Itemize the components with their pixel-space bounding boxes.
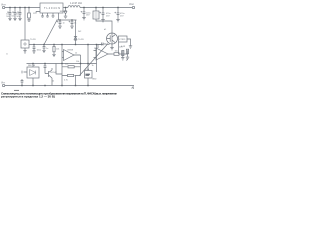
svg-text:1n: 1n: [74, 22, 76, 24]
op-amp A1: [64, 50, 75, 61]
svg-text:100n: 100n: [37, 49, 41, 51]
terminal Vin-: [2, 84, 4, 86]
wire A2 top feedback: [98, 44, 110, 48]
svg-text:TL494CN: TL494CN: [44, 7, 60, 10]
resistor R1: [53, 45, 55, 47]
wire diagonal D2: [80, 44, 109, 76]
ground: [32, 51, 35, 53]
svg-text:2.5A: 2.5A: [85, 68, 90, 71]
polarity mark: [17, 11, 19, 13]
polarity mark: [99, 12, 101, 14]
label mark: [132, 86, 135, 89]
capacitor C12: [44, 64, 47, 70]
capacitor C10: [43, 45, 46, 51]
svg-text:REL 1A: REL 1A: [28, 64, 35, 67]
svg-text:1n: 1n: [46, 48, 48, 50]
wire stub B1: [22, 71, 27, 74]
transistor Q1: [107, 33, 118, 44]
polarity mark: [12, 11, 14, 13]
labels: [1, 2, 134, 89]
ground: [82, 18, 85, 20]
node mid rail: [33, 44, 34, 45]
IC U1: [40, 3, 63, 13]
transistor Q2: [45, 70, 52, 79]
pin stub: [41, 13, 44, 17]
ground: [52, 54, 55, 56]
wire top rail left: [5, 7, 40, 9]
ground: [70, 26, 73, 28]
wire diagonal D1: [44, 20, 57, 45]
diode D2: [112, 53, 114, 55]
wire IC left stub: [36, 12, 40, 14]
svg-text:10k: 10k: [65, 64, 68, 66]
wire vertical: [61, 64, 63, 86]
comparator box B1: [27, 67, 39, 78]
pin stub: [46, 13, 49, 17]
resistor R3: [121, 50, 128, 57]
svg-text:10u: 10u: [6, 14, 9, 16]
capacitor C8: [117, 8, 120, 20]
pin stub: [58, 13, 60, 20]
svg-text:1k: 1k: [52, 81, 54, 83]
node top rail: [9, 7, 10, 8]
svg-text:10k: 10k: [76, 61, 79, 63]
capacitor C3: [19, 8, 22, 19]
capacitor C4: [59, 20, 62, 26]
box B2: [85, 71, 93, 79]
svg-text:10k: 10k: [115, 51, 118, 53]
wire top rail right: [63, 7, 132, 9]
svg-text:LM358: LM358: [67, 50, 74, 52]
ground: [42, 50, 45, 52]
svg-text:Vin+: Vin+: [1, 3, 6, 6]
inductor L1: [68, 6, 80, 8]
ground: [13, 18, 16, 20]
polarity mark: [7, 11, 9, 13]
ground: [116, 20, 119, 22]
feedback wires A1: [62, 55, 81, 67]
capacitor C6: [83, 8, 86, 18]
ground: [64, 16, 67, 18]
capacitor C2: [14, 8, 17, 19]
svg-text:регулируется в пределах 1.2 —: регулируется в пределах 1.2 — 30 В): [1, 94, 55, 98]
wire vertical: [96, 45, 98, 73]
polarity mark: [69, 21, 71, 23]
ground: [58, 26, 61, 28]
svg-text:Vin-: Vin-: [1, 82, 5, 85]
polarity mark: [81, 11, 83, 13]
node bottom rail: [21, 85, 22, 86]
svg-text:1k: 1k: [92, 65, 94, 67]
wire: [111, 44, 113, 47]
wire row y75.5: [62, 75, 81, 77]
svg-text:10k: 10k: [56, 49, 59, 51]
ground: [8, 18, 11, 20]
ground: [23, 48, 26, 53]
junction dots: [9, 7, 118, 86]
ground: [101, 20, 104, 22]
label box Q1: [119, 36, 128, 42]
svg-text:1N5822: 1N5822: [60, 11, 68, 13]
ground: [121, 57, 129, 60]
svg-text:1k: 1k: [75, 53, 77, 55]
capacitor C7: [102, 8, 105, 20]
wire vertical: [75, 76, 77, 86]
capacitor C11: [21, 79, 24, 86]
ground: [18, 18, 21, 20]
ground: [110, 48, 113, 50]
wire node row y20: [57, 19, 77, 21]
potentiometer box: [93, 11, 99, 19]
svg-text:TL431: TL431: [30, 39, 37, 41]
svg-text:10u: 10u: [11, 15, 14, 17]
svg-text:KT819: KT819: [119, 39, 126, 41]
svg-text:BC547: BC547: [51, 72, 58, 74]
wire left bus: [24, 8, 26, 41]
wire vertical: [61, 45, 63, 64]
capacitor C1: [9, 8, 12, 19]
wire low rail: [27, 63, 97, 65]
capacitor C5: [71, 20, 74, 26]
polarity mark: [114, 12, 116, 14]
svg-text:TL431: TL431: [78, 39, 85, 41]
wire bottom rail: [5, 85, 134, 87]
resistor R4: [68, 74, 74, 76]
svg-text:10R: 10R: [119, 46, 123, 48]
terminal Vin+: [2, 6, 4, 8]
svg-text:Vout: Vout: [129, 3, 134, 6]
wire mid rail: [29, 44, 103, 46]
op-amp A2: [96, 48, 108, 60]
voltage regulator U2: [21, 40, 29, 48]
diode D1: [64, 8, 67, 16]
capacitor C13: [102, 43, 107, 46]
svg-text:GND: GND: [92, 78, 97, 80]
resistor R2: [68, 66, 74, 68]
wire vertical: [75, 20, 77, 45]
label under rail: [14, 89, 19, 91]
fuse F1: [28, 8, 30, 14]
wire stub right low: [126, 60, 128, 61]
svg-text:10u: 10u: [16, 14, 19, 16]
node low rail: [32, 63, 33, 64]
wire Q1 right: [127, 39, 132, 48]
node y20 row: [59, 19, 60, 20]
pin stub: [52, 13, 55, 17]
zener D3: [74, 37, 77, 41]
polarity mark: [57, 21, 59, 23]
wire vertical: [80, 67, 82, 76]
wire: [96, 8, 112, 33]
svg-text:1n: 1n: [63, 22, 65, 24]
capacitor C9: [33, 45, 36, 51]
wire: [56, 64, 62, 75]
terminal Vout+: [132, 6, 134, 8]
wire vertical: [87, 45, 89, 71]
svg-text:4.7k: 4.7k: [64, 80, 68, 82]
svg-text:1.2mH 10A: 1.2mH 10A: [70, 2, 82, 5]
